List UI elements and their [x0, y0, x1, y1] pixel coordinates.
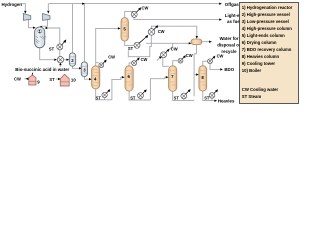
wire preheater to reactor	[47, 28, 60, 44]
svg-text:5) Light-ends column: 5) Light-ends column	[242, 33, 285, 38]
wire offgas header	[49, 3, 221, 5]
svg-text:Water for: Water for	[219, 36, 238, 41]
svg-text:8) Heavies column: 8) Heavies column	[242, 54, 280, 59]
svg-text:10: 10	[71, 78, 76, 83]
vessel V3	[81, 62, 87, 77]
column C5	[121, 18, 128, 41]
svg-text:Heavies: Heavies	[218, 98, 235, 103]
arrow BDO	[220, 68, 223, 70]
arrow into compressor B	[47, 11, 49, 14]
wire cooler riser to drum	[152, 26, 197, 36]
exchanger col4 reboiler ST	[102, 89, 110, 100]
arrow offgas end	[219, 3, 222, 5]
vessel V2	[69, 53, 75, 66]
arrow water disposal	[209, 41, 212, 43]
exchanger feed mixer	[57, 57, 63, 63]
wire hydrogen feed	[21, 4, 26, 11]
svg-text:CW: CW	[217, 53, 224, 58]
svg-text:CW: CW	[14, 77, 21, 82]
wire col4 riser to col5	[96, 28, 118, 65]
svg-text:1) Hydrogenation reactor: 1) Hydrogenation reactor	[242, 5, 293, 10]
arrow into column5	[118, 27, 121, 29]
wire compressor A outlet	[29, 20, 34, 28]
svg-text:ST: ST	[128, 46, 134, 51]
svg-text:CW: CW	[158, 29, 165, 34]
wire col8 reboiler	[203, 91, 215, 101]
arrow into column6	[122, 76, 125, 78]
exchanger water cooler CW	[161, 49, 170, 58]
boiler 10	[60, 74, 69, 86]
svg-text:as fuel: as fuel	[227, 19, 241, 24]
arrow lightends end	[219, 18, 222, 20]
wire vessel2 liquid	[73, 66, 80, 68]
arrow into vessel3	[79, 67, 82, 69]
svg-text:ST: ST	[204, 95, 210, 100]
exchanger col7 reboiler ST	[181, 89, 191, 100]
arrow ST house10	[58, 78, 61, 80]
exchanger col6 reboiler ST	[138, 89, 147, 100]
arrow into column8	[196, 73, 199, 75]
exchanger preheater ST	[57, 39, 67, 50]
wire vessel3 riser	[83, 4, 85, 62]
arrow heavies	[214, 100, 217, 102]
svg-text:CW: CW	[142, 5, 149, 10]
compressor K1	[23, 14, 30, 21]
wire col7 top side line	[163, 58, 169, 67]
svg-text:CW Cooling water: CW Cooling water	[242, 87, 279, 92]
wire col7 condenser jog	[173, 61, 179, 66]
svg-text:9) Cooling tower: 9) Cooling tower	[242, 61, 276, 66]
wire light-ends line	[134, 17, 220, 19]
wire water cooler branch	[169, 43, 173, 50]
svg-text:Offgas: Offgas	[225, 2, 239, 7]
exchanger col8 reboiler ST	[209, 89, 218, 100]
wire ST label house10	[56, 78, 59, 80]
exchanger col8 condenser CW	[208, 56, 216, 64]
svg-text:10) Boiler: 10) Boiler	[242, 68, 262, 73]
wire drum bottoms	[194, 45, 196, 54]
arrowheads	[24, 3, 223, 102]
wire vessel3 liquid	[84, 77, 89, 80]
wire col6 reboiler	[129, 91, 150, 100]
svg-text:3) Low-pressure vessel: 3) Low-pressure vessel	[242, 19, 289, 24]
svg-text:ST: ST	[49, 77, 55, 82]
svg-text:CW: CW	[186, 53, 193, 58]
wire col4 reboiler	[96, 89, 112, 100]
column C8	[199, 66, 207, 91]
wire col5 reboiler	[125, 41, 134, 45]
wire col5 bottoms recycle path	[128, 35, 151, 57]
reactor R1	[35, 27, 47, 48]
wire col6 bottoms to col7	[150, 77, 166, 100]
arrow into vessel2	[67, 59, 70, 61]
svg-text:Bio-succinic acid in water: Bio-succinic acid in water	[15, 67, 69, 72]
exchanger col4 condenser CW	[99, 60, 107, 68]
exchanger col5 reboiler ST	[134, 35, 148, 48]
drum D1	[191, 39, 202, 45]
cooling tower 9	[29, 73, 36, 85]
svg-text:ST: ST	[96, 95, 102, 100]
wire col8 feed elbow	[194, 74, 196, 76]
svg-text:CW: CW	[108, 54, 115, 59]
exchanger col6 condenser CW	[132, 57, 140, 65]
wire compressor B inlet	[47, 4, 49, 11]
wire CW label house9	[24, 78, 28, 80]
wire col4 condenser jog	[96, 62, 99, 64]
column C7	[169, 66, 177, 92]
exchanger col5 condenser CW	[131, 7, 141, 17]
arrow into column7	[166, 76, 169, 78]
column C4	[92, 66, 100, 89]
svg-text:2) High-pressure vessel: 2) High-pressure vessel	[242, 12, 290, 17]
compressor K2	[43, 14, 50, 21]
svg-text:Hydrogen: Hydrogen	[2, 2, 23, 7]
arrow offgas small	[82, 3, 85, 5]
arrow into compressor A	[24, 11, 26, 14]
wire vessel2 riser	[72, 4, 74, 53]
exchanger col7 condenser CW	[178, 55, 186, 63]
wire BDO product	[210, 64, 220, 70]
wire col7 reboiler	[173, 91, 186, 100]
svg-text:4) High-pressure column: 4) High-pressure column	[242, 26, 292, 31]
arrow into drum top	[196, 36, 198, 39]
arrow reactor feed right	[45, 27, 48, 29]
svg-text:recycle: recycle	[221, 49, 237, 54]
svg-text:BDO: BDO	[224, 67, 234, 72]
wire col6 condenser jog	[129, 63, 131, 66]
arrow into water cooler	[159, 57, 162, 59]
arrow CW house9	[26, 78, 29, 80]
arrow reactor feed left	[33, 27, 36, 29]
svg-text:ST Steam: ST Steam	[242, 94, 262, 99]
wire mixer outlet	[64, 59, 67, 61]
svg-text:CW: CW	[141, 57, 148, 62]
arrow into column4	[89, 78, 92, 80]
svg-text:ST: ST	[174, 96, 180, 101]
wire drum outlet	[202, 41, 209, 43]
wire col8 feed riser	[193, 54, 195, 96]
wire col7 bottoms	[185, 99, 194, 101]
wire col4 bottoms to col6	[112, 77, 122, 100]
arrow into drum left	[189, 42, 192, 44]
arrow reactor feed down	[40, 26, 42, 29]
svg-text:ST: ST	[49, 47, 55, 52]
svg-text:7) BDO recovery column: 7) BDO recovery column	[242, 47, 292, 52]
wire col8 condenser jog	[203, 61, 208, 65]
wire col5 condenser	[125, 11, 134, 17]
wire drum feed header	[146, 42, 189, 44]
wire reactor bottoms	[40, 47, 55, 60]
exchanger lights cooler CW	[148, 25, 158, 35]
wire col6 condensate to cooler	[157, 58, 160, 61]
column C6	[125, 66, 133, 91]
arrow into mixer	[54, 59, 57, 61]
wire preheater to mixer	[59, 50, 61, 56]
wire succinic feed stub	[59, 65, 61, 67]
svg-text:ST: ST	[130, 95, 136, 100]
svg-text:disposal or: disposal or	[217, 42, 241, 47]
svg-text:6) Drying column: 6) Drying column	[242, 40, 277, 45]
legend box	[240, 3, 299, 104]
wire compressor B outlet	[41, 20, 47, 27]
arrow succinic feed up	[59, 62, 61, 65]
svg-text:CW: CW	[171, 47, 178, 52]
